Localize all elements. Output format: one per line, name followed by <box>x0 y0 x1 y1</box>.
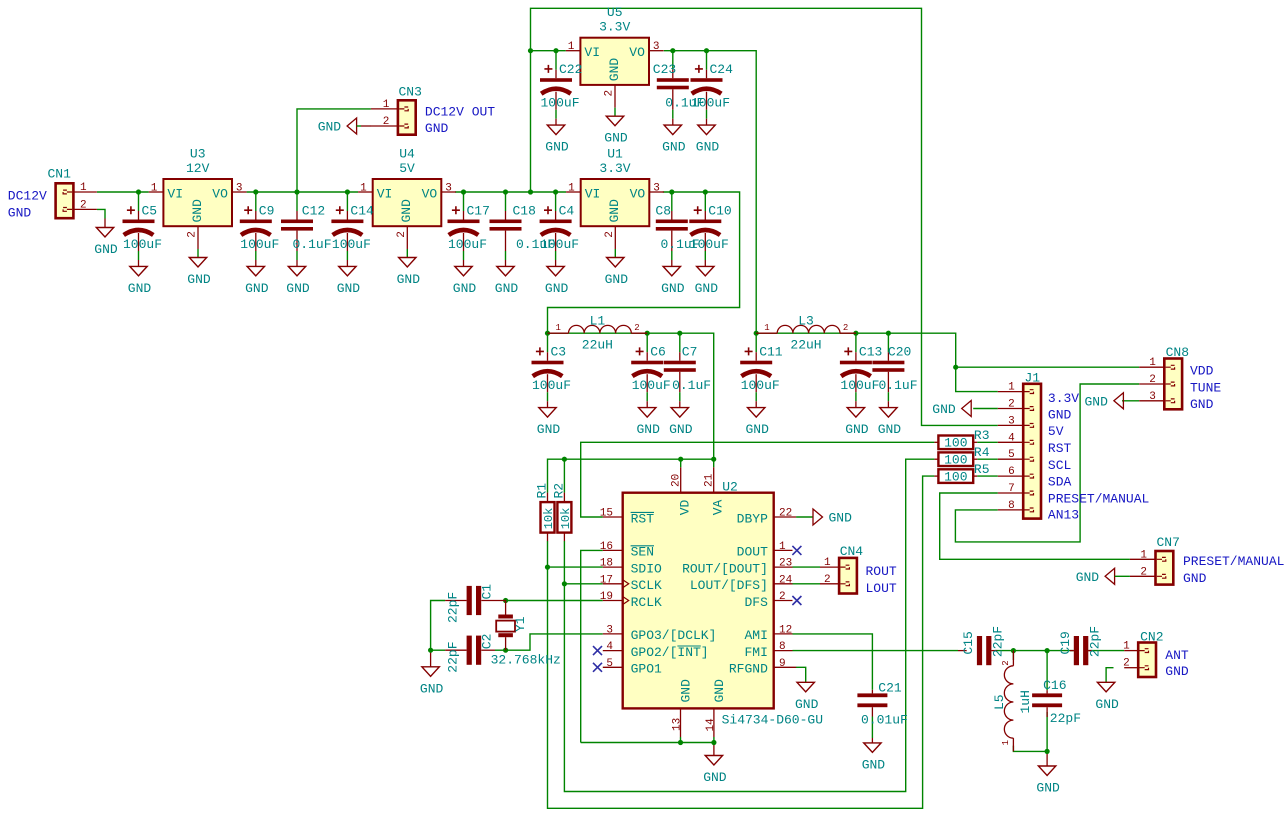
svg-text:100uF: 100uF <box>540 96 579 111</box>
pin 20 VD <box>680 467 682 492</box>
ground <box>1046 751 1048 766</box>
svg-text:1: 1 <box>1123 641 1130 653</box>
svg-text:22pF: 22pF <box>991 626 1006 657</box>
svg-text:RFGND: RFGND <box>729 662 768 677</box>
svg-text:GND: GND <box>128 281 152 296</box>
svg-text:ROUT/[DOUT]: ROUT/[DOUT] <box>682 561 768 576</box>
capacitor C9 100uF <box>255 192 257 211</box>
resistor R1 10k <box>541 502 555 532</box>
svg-text:U3: U3 <box>190 147 206 162</box>
svg-text:22uH: 22uH <box>582 338 613 353</box>
svg-text:100uF: 100uF <box>240 237 279 252</box>
svg-text:C12: C12 <box>302 204 325 219</box>
op-amp U2 Si4734-D60-GU <box>623 493 774 709</box>
wire SEN to ground bus <box>581 550 603 742</box>
svg-text:VO: VO <box>630 187 646 202</box>
svg-text:GND: GND <box>607 199 622 223</box>
svg-text:GND: GND <box>399 199 414 223</box>
svg-text:GND: GND <box>669 422 693 437</box>
capacitor C20 0.1uF <box>887 333 889 352</box>
svg-text:VO: VO <box>422 187 438 202</box>
svg-text:1: 1 <box>779 541 786 553</box>
svg-text:R4: R4 <box>974 445 990 460</box>
pin 12 AMI <box>774 633 793 635</box>
svg-text:C20: C20 <box>888 345 911 360</box>
svg-text:DFS: DFS <box>744 595 768 610</box>
svg-text:3: 3 <box>1149 391 1156 403</box>
svg-text:23: 23 <box>779 558 792 570</box>
capacitor C23 0.1uF <box>672 51 674 70</box>
svg-text:GND: GND <box>453 281 477 296</box>
pin 15 RST <box>603 516 623 518</box>
svg-text:12V: 12V <box>186 161 210 176</box>
svg-text:DOUT: DOUT <box>737 545 768 560</box>
svg-text:C21: C21 <box>878 681 902 696</box>
svg-text:CN1: CN1 <box>48 167 72 182</box>
wire C2 right to Y1 bottom <box>495 649 506 651</box>
svg-text:10k: 10k <box>559 508 573 530</box>
svg-text:FMI: FMI <box>744 645 767 660</box>
pin 21 VA <box>713 467 715 492</box>
svg-text:GND: GND <box>318 120 342 135</box>
pin 9 RFGND <box>774 666 796 668</box>
svg-text:20: 20 <box>670 474 682 487</box>
svg-text:DC12V OUT: DC12V OUT <box>425 105 495 120</box>
wire SDA: R5 to J1 pin6 <box>977 475 998 477</box>
svg-text:C23: C23 <box>653 62 676 77</box>
svg-text:L1: L1 <box>590 314 606 329</box>
capacitor C18 0.1uF <box>505 192 507 211</box>
svg-text:C3: C3 <box>551 345 567 360</box>
svg-text:DC12V: DC12V <box>8 189 47 204</box>
svg-text:GND: GND <box>495 281 519 296</box>
svg-text:Y1: Y1 <box>513 616 528 632</box>
svg-text:3: 3 <box>236 183 243 195</box>
wire C16 top lead <box>1046 651 1048 691</box>
svg-text:ROUT: ROUT <box>866 564 897 579</box>
svg-text:GND: GND <box>745 422 769 437</box>
regulator U5 3.3V <box>580 38 649 85</box>
svg-text:C10: C10 <box>708 204 731 219</box>
svg-text:16: 16 <box>600 541 613 553</box>
svg-text:2: 2 <box>80 199 87 211</box>
svg-text:3: 3 <box>1008 415 1015 427</box>
svg-text:GND: GND <box>712 679 727 703</box>
svg-text:C16: C16 <box>1043 678 1066 693</box>
svg-text:GND: GND <box>604 131 628 146</box>
svg-text:5V: 5V <box>1048 424 1064 439</box>
svg-text:2: 2 <box>1008 399 1015 411</box>
capacitor C11 100uF <box>755 333 757 352</box>
svg-text:1: 1 <box>568 41 575 53</box>
svg-text:GND: GND <box>636 422 660 437</box>
wire 3.3V to CN8 pin1 <box>956 366 1139 368</box>
wire C15 to C19 <box>995 650 1074 652</box>
svg-text:GND: GND <box>425 121 449 136</box>
svg-text:GND: GND <box>190 199 205 223</box>
svg-text:21: 21 <box>703 473 715 487</box>
wire Y1 bottom to U2 GPO3 <box>506 634 603 650</box>
junction dots <box>136 189 141 194</box>
svg-text:15: 15 <box>600 508 613 520</box>
ground flag <box>962 401 972 417</box>
wire R1 bottom <box>547 541 549 567</box>
svg-text:100uF: 100uF <box>532 378 571 393</box>
wire VA pin21 <box>713 459 715 467</box>
svg-text:J1: J1 <box>1025 370 1041 385</box>
svg-text:C8: C8 <box>655 204 671 219</box>
svg-text:RST: RST <box>631 511 655 526</box>
capacitor C12 0.1uF <box>296 192 298 211</box>
svg-text:GND: GND <box>397 272 421 287</box>
svg-text:VO: VO <box>629 45 645 60</box>
svg-text:C1: C1 <box>480 584 495 600</box>
svg-text:GND: GND <box>829 511 853 526</box>
capacitor C1 22pF <box>445 600 466 602</box>
svg-text:6: 6 <box>1008 466 1015 478</box>
svg-text:2: 2 <box>1149 374 1156 386</box>
svg-text:C14: C14 <box>350 204 374 219</box>
svg-text:GND: GND <box>662 140 686 155</box>
wire L5 top lead <box>1012 651 1014 660</box>
wire R3 to J1 pin4 <box>977 441 998 443</box>
svg-text:GND: GND <box>695 281 719 296</box>
wire U4 VO rail to U1 VI <box>455 191 566 193</box>
svg-text:5: 5 <box>1008 449 1015 461</box>
svg-text:4: 4 <box>606 641 613 653</box>
wire SCLK net R4 to U2 pin17 <box>564 459 934 791</box>
svg-text:LOUT: LOUT <box>866 581 897 596</box>
svg-text:100uF: 100uF <box>690 237 729 252</box>
pin 4 GPO2/[INT] <box>603 650 623 652</box>
wire AN13 J1 pin8 to CN8 pin2 <box>955 384 1139 542</box>
svg-text:CN7: CN7 <box>1157 535 1180 550</box>
svg-text:AMI: AMI <box>744 628 767 643</box>
svg-text:100uF: 100uF <box>632 378 671 393</box>
svg-text:GND: GND <box>1165 664 1189 679</box>
wire ROUT to CN4 pin1 <box>793 566 821 568</box>
svg-text:U1: U1 <box>607 147 623 162</box>
wire 5V riser to top and J1 pin3 <box>531 8 998 425</box>
svg-text:2: 2 <box>824 574 831 586</box>
inductor L5 1uH <box>1012 651 1014 666</box>
svg-text:AN13: AN13 <box>1048 508 1079 523</box>
svg-text:10k: 10k <box>542 508 556 530</box>
svg-text:100uF: 100uF <box>123 237 162 252</box>
wire SCL: R4 to J1 pin5 <box>977 458 998 460</box>
svg-text:3: 3 <box>653 183 660 195</box>
svg-text:5: 5 <box>606 658 613 670</box>
svg-text:GND: GND <box>605 272 629 287</box>
svg-text:18: 18 <box>600 558 613 570</box>
svg-text:3.3V: 3.3V <box>599 20 630 35</box>
svg-text:1: 1 <box>1001 740 1011 745</box>
wire U5 VI row <box>531 50 566 52</box>
svg-text:22pF: 22pF <box>445 641 460 672</box>
svg-text:1: 1 <box>824 557 831 569</box>
ground flag DBYP <box>813 509 823 525</box>
svg-text:VI: VI <box>377 187 393 202</box>
connector CN1 <box>56 183 74 218</box>
svg-text:7: 7 <box>1008 483 1015 495</box>
svg-text:ANT: ANT <box>1165 648 1189 663</box>
svg-text:22uH: 22uH <box>790 338 821 353</box>
svg-text:100uF: 100uF <box>691 96 730 111</box>
connector CN2 <box>1138 643 1156 678</box>
svg-text:SEN: SEN <box>631 545 654 560</box>
svg-text:9: 9 <box>779 658 786 670</box>
svg-text:2: 2 <box>396 231 408 238</box>
svg-text:1: 1 <box>383 99 390 111</box>
svg-text:2: 2 <box>1140 566 1147 578</box>
svg-text:GND: GND <box>795 697 819 712</box>
svg-text:100uF: 100uF <box>332 237 371 252</box>
svg-text:GND: GND <box>94 242 118 257</box>
no-connect DFS <box>792 596 801 605</box>
svg-text:GND: GND <box>1183 571 1207 586</box>
pin 23 ROUT/[DOUT] <box>774 566 793 568</box>
capacitor C6 100uF <box>646 333 648 352</box>
pin 16 SEN <box>603 549 623 551</box>
svg-text:2: 2 <box>1123 658 1130 670</box>
wire C16 bottom lead <box>1046 712 1048 751</box>
svg-text:3.3V: 3.3V <box>599 161 630 176</box>
pin 3 GPO3/[DCLK] <box>603 633 623 635</box>
no-connect GPO1 <box>593 663 602 672</box>
ground <box>104 219 106 228</box>
connector CN7 <box>1156 551 1174 585</box>
svg-text:3: 3 <box>445 183 452 195</box>
svg-text:GND: GND <box>696 140 720 155</box>
svg-text:C11: C11 <box>759 345 783 360</box>
svg-text:GND: GND <box>8 206 32 221</box>
svg-text:GND: GND <box>337 281 361 296</box>
svg-text:L3: L3 <box>798 314 814 329</box>
svg-text:GPO3/[DCLK]: GPO3/[DCLK] <box>631 628 717 643</box>
svg-text:GND: GND <box>1190 397 1214 412</box>
svg-text:PRESET/MANUAL: PRESET/MANUAL <box>1183 554 1284 569</box>
svg-text:100uF: 100uF <box>840 378 879 393</box>
svg-text:CN3: CN3 <box>399 85 422 100</box>
svg-text:4: 4 <box>1008 432 1015 444</box>
svg-text:Si4734-D60-GU: Si4734-D60-GU <box>722 713 823 728</box>
wire U1 VO to C3/L1 row <box>548 192 740 333</box>
svg-text:GPO2/[INT]: GPO2/[INT] <box>631 645 709 660</box>
capacitor C5 100uF <box>138 192 140 211</box>
ground <box>797 682 814 692</box>
ground flag <box>1105 568 1115 584</box>
wire U3 VO rail to U4 VI <box>247 191 359 193</box>
svg-text:PRESET/MANUAL: PRESET/MANUAL <box>1048 491 1149 506</box>
svg-text:GND: GND <box>932 402 956 417</box>
svg-text:0.01uF: 0.01uF <box>861 713 908 728</box>
svg-text:U2: U2 <box>722 480 738 495</box>
svg-text:C24: C24 <box>710 62 734 77</box>
wire CN1 pin2 to ground <box>97 209 105 218</box>
svg-text:1: 1 <box>80 182 87 194</box>
svg-text:13: 13 <box>672 718 684 731</box>
wire J1 pin2 to GND flag <box>973 408 998 410</box>
svg-text:VDD: VDD <box>1190 364 1214 379</box>
wire C19 to CN2 pin1 <box>1088 650 1124 652</box>
svg-text:CN4: CN4 <box>840 544 864 559</box>
resistor R3 100 <box>938 436 973 450</box>
resistor R4 100 <box>938 452 973 466</box>
svg-text:GND: GND <box>862 757 886 772</box>
crystal Y1 32.768kHz <box>505 601 507 615</box>
svg-text:0.1uF: 0.1uF <box>878 378 917 393</box>
svg-text:100: 100 <box>944 436 967 451</box>
svg-text:C5: C5 <box>142 204 158 219</box>
svg-text:GND: GND <box>1084 394 1108 409</box>
svg-text:1: 1 <box>1140 549 1147 561</box>
svg-text:8: 8 <box>1008 500 1015 512</box>
svg-text:1: 1 <box>1149 357 1156 369</box>
svg-text:GND: GND <box>545 140 569 155</box>
svg-text:100uF: 100uF <box>448 237 487 252</box>
svg-text:GND: GND <box>703 770 727 785</box>
svg-text:TUNE: TUNE <box>1190 380 1221 395</box>
svg-text:R3: R3 <box>974 428 990 443</box>
svg-text:CN2: CN2 <box>1140 629 1163 644</box>
pin 17 SCLK <box>603 583 623 585</box>
svg-text:VI: VI <box>584 45 600 60</box>
wire R2 top <box>563 459 565 492</box>
pin 5 GPO1 <box>603 666 623 668</box>
capacitor C15 22pF <box>958 650 967 652</box>
wire LOUT to CN4 pin2 <box>793 583 821 585</box>
svg-text:GND: GND <box>1048 407 1072 422</box>
capacitor C22 100uF <box>555 51 557 70</box>
capacitor C21 0.01uF <box>871 690 873 694</box>
wire CN2 pin2 to ground <box>1106 668 1113 683</box>
svg-text:32.768kHz: 32.768kHz <box>491 652 561 667</box>
svg-text:3: 3 <box>653 41 660 53</box>
wire RFGND to ground <box>796 667 806 682</box>
wire SDIO net R5 to U2 pin18 <box>548 476 935 808</box>
svg-text:2: 2 <box>604 90 616 97</box>
svg-text:100: 100 <box>944 469 967 484</box>
svg-text:GND: GND <box>545 281 569 296</box>
svg-text:2: 2 <box>187 231 199 238</box>
svg-text:24: 24 <box>779 574 793 586</box>
svg-text:1: 1 <box>360 183 367 195</box>
capacitor C16 22pF <box>1046 690 1048 693</box>
wire U2 ground bus <box>581 742 714 744</box>
svg-text:C13: C13 <box>859 345 882 360</box>
connector J1 <box>1023 384 1041 519</box>
pin 19 RCLK <box>603 600 623 602</box>
svg-text:2: 2 <box>604 231 616 238</box>
resistor R2 10k <box>557 502 571 532</box>
svg-text:8: 8 <box>779 641 786 653</box>
ground flag <box>1114 393 1124 409</box>
svg-text:1uH: 1uH <box>1018 690 1033 713</box>
svg-text:DBYP: DBYP <box>737 511 768 526</box>
svg-text:GND: GND <box>845 422 869 437</box>
pin 1 DOUT <box>774 549 793 551</box>
svg-text:5V: 5V <box>399 161 415 176</box>
svg-text:C18: C18 <box>513 204 536 219</box>
svg-text:100: 100 <box>944 452 967 467</box>
svg-text:C15: C15 <box>961 631 976 654</box>
svg-text:GND: GND <box>286 281 310 296</box>
capacitor C10 100uF <box>704 192 706 211</box>
wire VD pin20 <box>680 459 682 467</box>
wire L3 row to CN8/J1 <box>756 333 998 391</box>
svg-text:GND: GND <box>1036 781 1060 796</box>
svg-text:2: 2 <box>383 116 390 128</box>
svg-text:VI: VI <box>167 187 183 202</box>
wire U5 VO to C11/L3 row <box>664 51 756 334</box>
capacitor C8 0.1uF <box>671 192 673 211</box>
capacitor C4 100uF <box>555 192 557 211</box>
svg-text:U5: U5 <box>607 5 623 20</box>
svg-text:C4: C4 <box>559 204 575 219</box>
wire riser to CN3 pin1 <box>297 109 371 192</box>
svg-text:L5: L5 <box>992 694 1007 710</box>
regulator U4 5V <box>373 179 442 226</box>
svg-text:GND: GND <box>537 422 561 437</box>
svg-text:C7: C7 <box>682 345 698 360</box>
capacitor C13 100uF <box>855 333 857 352</box>
svg-text:SCLK: SCLK <box>631 578 662 593</box>
pin 18 SDIO <box>603 566 623 568</box>
svg-text:2: 2 <box>634 323 639 333</box>
svg-text:RCLK: RCLK <box>631 595 662 610</box>
ground flag <box>347 118 357 134</box>
wire CN1 pin1 to U3 VI <box>97 191 149 193</box>
svg-text:1: 1 <box>764 323 769 333</box>
svg-text:C22: C22 <box>559 62 582 77</box>
ground <box>713 743 715 756</box>
wire R2 bottom <box>563 541 565 584</box>
svg-text:SDA: SDA <box>1048 475 1072 490</box>
svg-text:12: 12 <box>779 624 792 636</box>
svg-text:SCL: SCL <box>1048 458 1071 473</box>
wire AMI to C21 <box>793 634 873 690</box>
svg-text:22pF: 22pF <box>1050 711 1081 726</box>
svg-text:2: 2 <box>1001 660 1011 665</box>
svg-text:GND: GND <box>661 281 685 296</box>
inductor L1 22uH <box>548 332 569 334</box>
pin 24 LOUT/[DFS] <box>774 583 793 585</box>
wire RST net U2 pin15 to R3 <box>581 442 935 517</box>
svg-text:VO: VO <box>212 187 228 202</box>
regulator U3 12V <box>163 179 232 226</box>
svg-text:22: 22 <box>779 508 792 520</box>
ground <box>1097 682 1114 692</box>
svg-text:GND: GND <box>1095 697 1119 712</box>
svg-text:22pF: 22pF <box>1088 626 1103 657</box>
svg-text:GND: GND <box>187 272 211 287</box>
capacitor C17 100uF <box>463 192 465 211</box>
connector CN8 <box>1164 359 1182 410</box>
connector CN4 <box>839 558 857 594</box>
svg-text:GPO1: GPO1 <box>631 662 662 677</box>
svg-text:CN8: CN8 <box>1166 345 1189 360</box>
svg-text:C17: C17 <box>467 204 490 219</box>
svg-text:VD: VD <box>677 499 692 515</box>
svg-text:100uF: 100uF <box>540 237 579 252</box>
ground <box>430 650 432 667</box>
svg-text:GND: GND <box>420 681 444 696</box>
inductor L3 22uH <box>756 332 777 334</box>
wire PRESET/MANUAL J1 pin7 to CN7 pin1 <box>940 493 1130 559</box>
pin 22 DBYP <box>774 516 796 518</box>
wire RCLK net crystal to U2 pin19 <box>506 600 603 602</box>
svg-text:VA: VA <box>710 499 725 515</box>
